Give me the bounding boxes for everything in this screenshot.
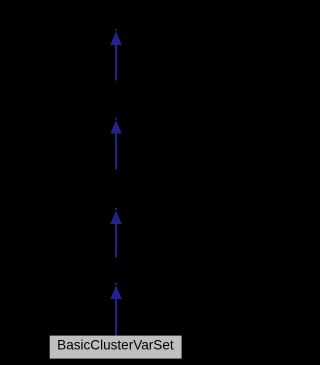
arrow level 4 (from BasicClusterVarSet) bbox=[110, 283, 122, 335]
arrow to top-level base class (level 1) bbox=[110, 29, 122, 81]
node box BasicClusterVarSet (current class, grey fill) bbox=[50, 336, 182, 359]
arrow level 2 bbox=[110, 118, 122, 170]
arrow level 3 bbox=[110, 208, 122, 258]
svg-text:BasicClusterVarSet: BasicClusterVarSet bbox=[57, 338, 174, 353]
inheritance diagram: BasicClusterVarSet bbox=[0, 0, 232, 365]
